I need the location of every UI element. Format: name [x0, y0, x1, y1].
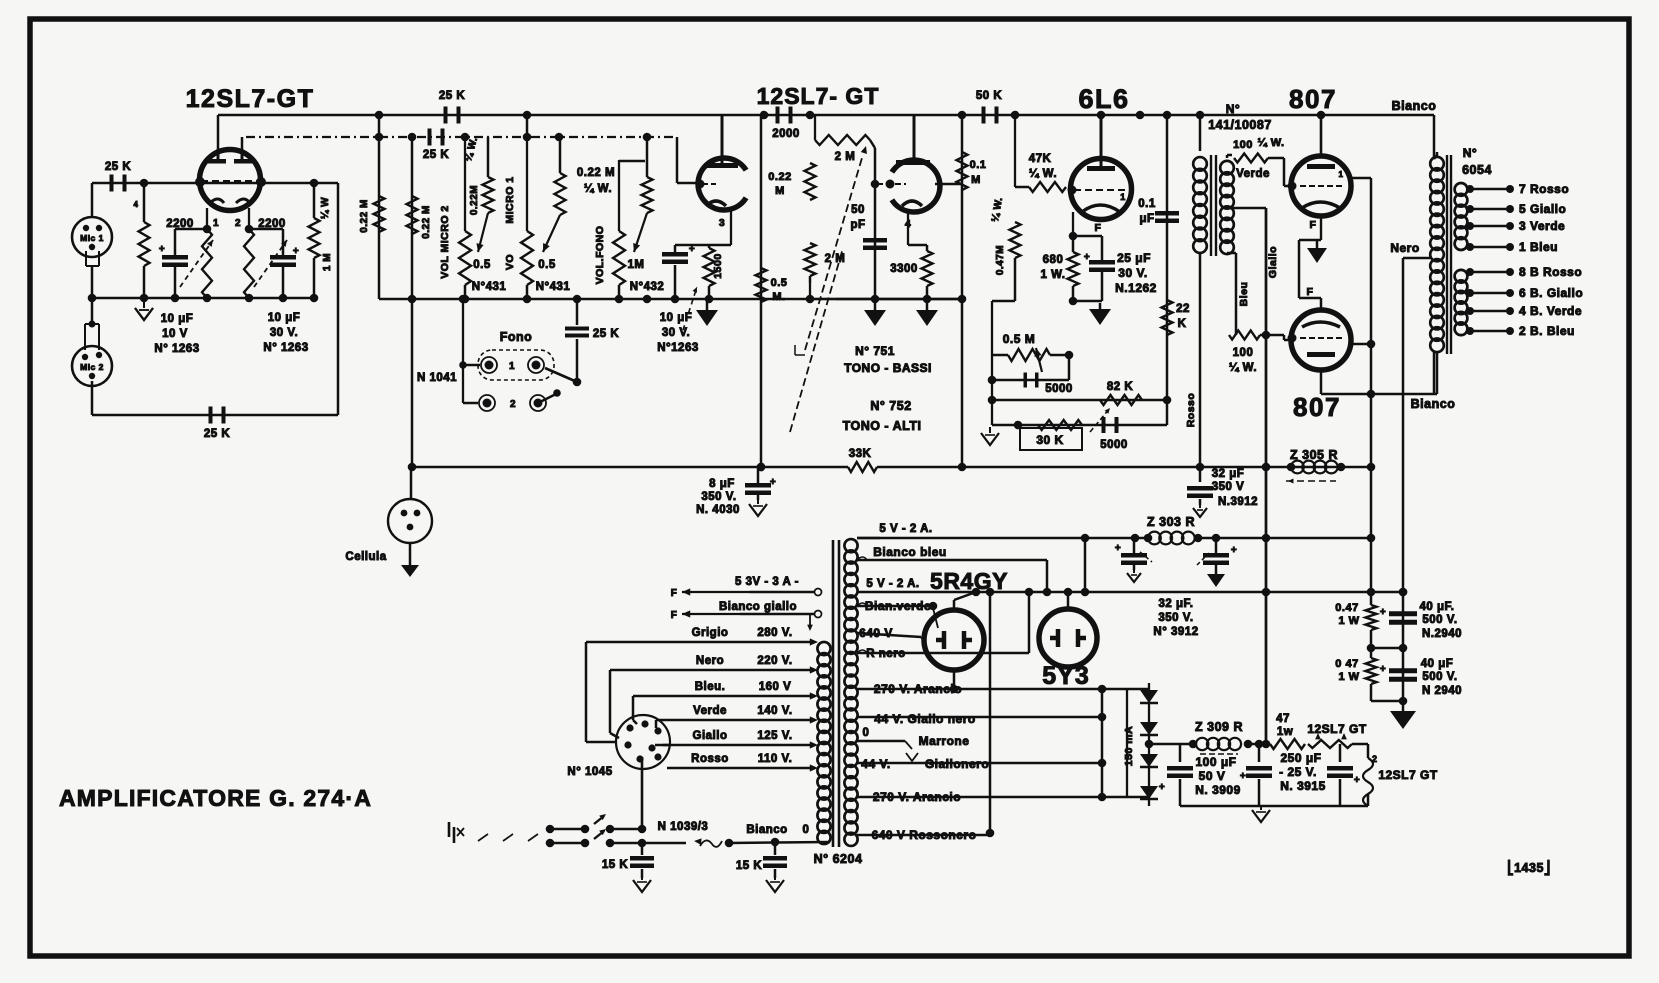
svg-text:8 B Rosso: 8 B Rosso [1519, 265, 1582, 279]
svg-text:50: 50 [851, 204, 865, 216]
svg-text:¼ W.: ¼ W. [1229, 362, 1257, 374]
svg-text:2: 2 [235, 218, 241, 229]
svg-text:141/10087: 141/10087 [1208, 118, 1272, 132]
svg-text:1: 1 [1120, 192, 1126, 202]
svg-text:N. 4030: N. 4030 [696, 504, 740, 516]
svg-text:3 Verde: 3 Verde [1519, 219, 1565, 233]
svg-text:Nero: Nero [1390, 241, 1419, 255]
svg-text:Marrone: Marrone [919, 734, 970, 748]
svg-text:N°431: N°431 [536, 281, 571, 293]
svg-text:25 K: 25 K [105, 161, 131, 173]
svg-text:0: 0 [863, 727, 870, 739]
svg-text:3: 3 [719, 217, 725, 229]
svg-text:100 μF: 100 μF [1195, 755, 1236, 769]
svg-text:0.47: 0.47 [1335, 602, 1358, 614]
svg-text:1 W: 1 W [1338, 671, 1359, 683]
svg-text:1M: 1M [628, 259, 645, 271]
svg-text:25 μF: 25 μF [1117, 251, 1151, 265]
svg-text:Bianco: Bianco [1411, 397, 1456, 411]
svg-text:0.1: 0.1 [1138, 198, 1156, 210]
svg-text:270 V. Arancio: 270 V. Arancio [873, 790, 961, 804]
svg-text:500 V.: 500 V. [1422, 614, 1457, 626]
svg-text:1 Bleu: 1 Bleu [1519, 240, 1558, 254]
svg-text:30 V.: 30 V. [662, 327, 690, 339]
svg-text:100: 100 [1233, 347, 1254, 359]
svg-text:+: + [1231, 545, 1237, 556]
svg-text:M: M [971, 174, 981, 186]
svg-text:0.5: 0.5 [538, 259, 556, 271]
svg-text:2: 2 [510, 399, 516, 410]
svg-text:Mic 1: Mic 1 [80, 233, 104, 243]
svg-text:N°432: N°432 [630, 281, 665, 293]
svg-text:Bianco bleu: Bianco bleu [873, 545, 947, 559]
svg-text:+: + [1380, 607, 1386, 618]
svg-text:N° 752: N° 752 [870, 399, 911, 413]
svg-text:44 V. Giallo nero: 44 V. Giallo nero [874, 712, 975, 726]
svg-text:5 V - 2 A.: 5 V - 2 A. [879, 523, 932, 535]
svg-text:VOL MICRO 2: VOL MICRO 2 [439, 205, 451, 279]
svg-text:1 M: 1 M [322, 253, 333, 271]
svg-text:+: + [689, 244, 695, 255]
svg-text:N°: N° [1463, 146, 1477, 160]
svg-text:5R4GY: 5R4GY [930, 568, 1008, 594]
svg-text:82 K: 82 K [1107, 381, 1133, 393]
svg-text:33K: 33K [849, 448, 872, 460]
svg-text:R nero: R nero [866, 648, 905, 660]
svg-text:25 K: 25 K [593, 328, 619, 340]
svg-text:2000: 2000 [772, 128, 800, 140]
svg-text:10 μF: 10 μF [268, 312, 301, 324]
svg-text:Verde: Verde [1236, 168, 1270, 180]
svg-text:30 V.: 30 V. [1118, 266, 1147, 280]
svg-text:Giallo: Giallo [693, 730, 728, 742]
svg-text:M: M [775, 185, 785, 197]
svg-text:⎣1435⎦: ⎣1435⎦ [1507, 859, 1550, 876]
svg-text:VO: VO [504, 254, 516, 270]
svg-text:N 2940: N 2940 [1422, 685, 1462, 697]
svg-text:10 V: 10 V [162, 328, 188, 340]
svg-text:+: + [770, 477, 776, 488]
svg-text:32 μF.: 32 μF. [1159, 598, 1194, 610]
svg-text:Mic 2: Mic 2 [80, 362, 104, 372]
svg-text:Cellula: Cellula [345, 551, 386, 563]
svg-text:350 V: 350 V [1212, 481, 1245, 493]
svg-text:N. 3909: N. 3909 [1195, 783, 1241, 797]
svg-text:110 V.: 110 V. [758, 753, 793, 765]
svg-text:1500: 1500 [712, 253, 724, 278]
svg-text:Rosso: Rosso [1185, 393, 1197, 428]
svg-text:Bleu: Bleu [1238, 282, 1250, 307]
svg-text:5 V - 2 A.: 5 V - 2 A. [866, 578, 919, 590]
svg-text:+: + [159, 244, 165, 255]
svg-text:0.5: 0.5 [771, 277, 788, 289]
svg-text:0.22M: 0.22M [469, 185, 480, 215]
svg-text:Bian.verde: Bian.verde [865, 599, 931, 613]
svg-text:280 V.: 280 V. [757, 627, 792, 639]
svg-text:47: 47 [1276, 713, 1290, 725]
svg-text:+: + [293, 246, 299, 257]
svg-text:+: + [1354, 775, 1360, 786]
svg-text:2 M: 2 M [835, 151, 856, 163]
svg-text:+: + [1380, 664, 1386, 675]
svg-text:Rosso: Rosso [691, 753, 729, 765]
svg-text:Z 303 R: Z 303 R [1147, 515, 1195, 529]
svg-text:M.: M. [772, 291, 785, 303]
svg-text:12SL7 GT: 12SL7 GT [1307, 722, 1367, 736]
svg-text:2: 2 [1372, 754, 1378, 764]
svg-text:8 μF: 8 μF [709, 478, 735, 490]
svg-text:pF: pF [850, 219, 865, 231]
svg-text:N° 6204: N° 6204 [814, 852, 863, 866]
svg-text:¼ W.: ¼ W. [1029, 168, 1057, 180]
svg-text:4 B. Verde: 4 B. Verde [1519, 304, 1582, 318]
svg-text:0.22 M: 0.22 M [421, 205, 432, 239]
svg-text:5000: 5000 [1100, 439, 1128, 451]
svg-text:N°: N° [1226, 102, 1240, 116]
svg-text:N.1262: N.1262 [1115, 281, 1157, 295]
svg-text:+: + [1115, 543, 1121, 554]
svg-text:5000: 5000 [1045, 383, 1073, 395]
svg-text:¼ W: ¼ W [320, 197, 331, 219]
svg-text:N.3912: N.3912 [1218, 496, 1258, 508]
svg-text:N. 3915: N. 3915 [1280, 779, 1326, 793]
svg-text:807: 807 [1289, 84, 1337, 114]
svg-text:N 1041: N 1041 [417, 372, 457, 384]
svg-text:22: 22 [1176, 303, 1190, 315]
svg-text:0.22: 0.22 [768, 171, 791, 183]
svg-text:25 K: 25 K [423, 149, 449, 161]
svg-text:25 K: 25 K [204, 428, 230, 440]
svg-text:TONO - BASSI: TONO - BASSI [844, 361, 932, 375]
svg-text:¼ W.: ¼ W. [1257, 137, 1284, 149]
svg-text:- 25 V.: - 25 V. [1279, 765, 1317, 779]
svg-text:1 W: 1 W [1338, 615, 1359, 627]
svg-text:3300: 3300 [890, 263, 918, 275]
svg-text:2 B. Bleu: 2 B. Bleu [1519, 324, 1575, 338]
svg-text:N° 1045: N° 1045 [567, 766, 612, 778]
svg-text:350 V.: 350 V. [1158, 612, 1193, 624]
svg-text:40 μF: 40 μF [1421, 658, 1454, 670]
svg-text:5 Giallo: 5 Giallo [1519, 202, 1566, 216]
svg-text:0.22 M: 0.22 M [577, 167, 615, 179]
svg-text:40 μF.: 40 μF. [1420, 601, 1455, 613]
svg-text:7 Rosso: 7 Rosso [1519, 182, 1569, 196]
svg-text:VOL.FONO: VOL.FONO [594, 226, 606, 285]
svg-text:N° 751: N° 751 [855, 344, 895, 358]
svg-text:+: + [1084, 252, 1090, 263]
svg-text:N 1039/3: N 1039/3 [658, 821, 709, 833]
svg-text:270 V. Arancio: 270 V. Arancio [874, 682, 962, 696]
svg-text:N°431: N°431 [472, 281, 507, 293]
svg-text:Verde: Verde [693, 705, 727, 717]
svg-text:30 K: 30 K [1036, 433, 1063, 447]
svg-text:12SL7 GT: 12SL7 GT [1378, 768, 1438, 782]
svg-text:μF: μF [1139, 213, 1154, 225]
svg-text:140 V.: 140 V. [757, 705, 792, 717]
svg-text:6054: 6054 [1462, 163, 1492, 177]
svg-text:¼ W.: ¼ W. [584, 183, 612, 195]
svg-text:640 V Rossonero: 640 V Rossonero [872, 828, 977, 842]
svg-text:0.22 M: 0.22 M [359, 199, 370, 233]
svg-text:N.2940: N.2940 [1422, 628, 1462, 640]
svg-text:Giallo: Giallo [1267, 246, 1279, 278]
svg-text:K: K [1178, 318, 1187, 330]
svg-text:Bianco giallo: Bianco giallo [719, 601, 797, 613]
svg-text:15 K: 15 K [602, 859, 628, 871]
svg-text:12SL7- GT: 12SL7- GT [757, 83, 880, 109]
svg-text:TONO - ALTI: TONO - ALTI [843, 419, 922, 433]
svg-text:Grigio: Grigio [692, 627, 729, 639]
svg-text:N° 1263: N° 1263 [263, 342, 308, 354]
svg-text:1: 1 [213, 218, 219, 229]
svg-text:N° 1263: N° 1263 [154, 343, 199, 355]
svg-text:350 V.: 350 V. [701, 491, 736, 503]
svg-text:25 K: 25 K [439, 90, 465, 102]
svg-text:Bianco: Bianco [746, 824, 787, 836]
svg-text:12SL7-GT: 12SL7-GT [186, 85, 315, 113]
svg-text:1: 1 [1339, 170, 1344, 179]
svg-text:50 V: 50 V [1199, 769, 1226, 783]
svg-text:5 3V - 3 A -: 5 3V - 3 A - [735, 576, 799, 588]
svg-text:F: F [671, 610, 678, 621]
svg-text:10 μF: 10 μF [161, 313, 194, 325]
svg-text:+: + [1240, 771, 1246, 782]
svg-text:15 K: 15 K [736, 860, 762, 872]
svg-text:220 V.: 220 V. [757, 655, 792, 667]
svg-text:MICRO 1: MICRO 1 [504, 176, 516, 223]
svg-text:N° 3912: N° 3912 [1153, 626, 1198, 638]
svg-text:Bianco: Bianco [1392, 99, 1437, 113]
svg-text:6 B. Giallo: 6 B. Giallo [1519, 286, 1583, 300]
svg-text:100: 100 [1233, 139, 1253, 151]
svg-text:N°1263: N°1263 [657, 342, 699, 354]
svg-text:0.5 M: 0.5 M [1003, 332, 1036, 346]
svg-text:640 V: 640 V [859, 626, 893, 640]
svg-text:0.5: 0.5 [473, 259, 491, 271]
svg-text:32 μF: 32 μF [1212, 468, 1245, 480]
svg-text:0 47: 0 47 [1335, 658, 1358, 670]
svg-text:47K: 47K [1029, 153, 1052, 165]
svg-text:125 V.: 125 V. [757, 730, 792, 742]
svg-text:F: F [671, 588, 678, 599]
svg-text:Z 309 R: Z 309 R [1195, 720, 1243, 734]
svg-text:150 mA: 150 mA [1123, 726, 1135, 766]
svg-text:F: F [1307, 286, 1314, 298]
svg-text:1w: 1w [1277, 726, 1293, 738]
svg-text:1: 1 [509, 361, 515, 372]
svg-text:160 V: 160 V [759, 681, 792, 693]
svg-text:F: F [1310, 219, 1317, 231]
svg-text:AMPLIFICATORE G. 274·A: AMPLIFICATORE G. 274·A [59, 785, 372, 811]
svg-text:1 W.: 1 W. [1040, 269, 1065, 281]
svg-text:Fono: Fono [500, 330, 533, 344]
svg-text:4: 4 [134, 200, 139, 209]
svg-text:2 M: 2 M [825, 253, 846, 265]
svg-text:44 V.: 44 V. [861, 757, 890, 771]
svg-text:0.1: 0.1 [970, 159, 987, 171]
svg-text:6L6: 6L6 [1078, 84, 1129, 114]
svg-text:250 μF: 250 μF [1280, 751, 1321, 765]
svg-text:0: 0 [803, 824, 810, 836]
svg-text:0.47M: 0.47M [995, 245, 1006, 275]
svg-text:680: 680 [1043, 254, 1064, 266]
svg-text:Bleu.: Bleu. [695, 681, 726, 693]
svg-text:807: 807 [1293, 392, 1341, 422]
svg-text:500 V.: 500 V. [1422, 671, 1457, 683]
svg-text:Nero: Nero [696, 655, 724, 667]
svg-text:5Y3: 5Y3 [1042, 662, 1089, 690]
svg-text:50 K: 50 K [976, 90, 1002, 102]
svg-text:30 V.: 30 V. [270, 327, 298, 339]
svg-text:+: + [1159, 782, 1165, 793]
svg-text:Giallonero: Giallonero [925, 757, 989, 771]
svg-text:F: F [1095, 222, 1102, 234]
